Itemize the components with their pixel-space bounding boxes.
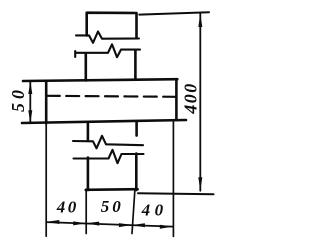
svg-text:40: 40 xyxy=(56,198,79,217)
svg-text:40: 40 xyxy=(141,200,168,219)
svg-text:50: 50 xyxy=(101,197,124,216)
svg-text:50: 50 xyxy=(8,86,28,112)
svg-text:400: 400 xyxy=(180,82,200,115)
